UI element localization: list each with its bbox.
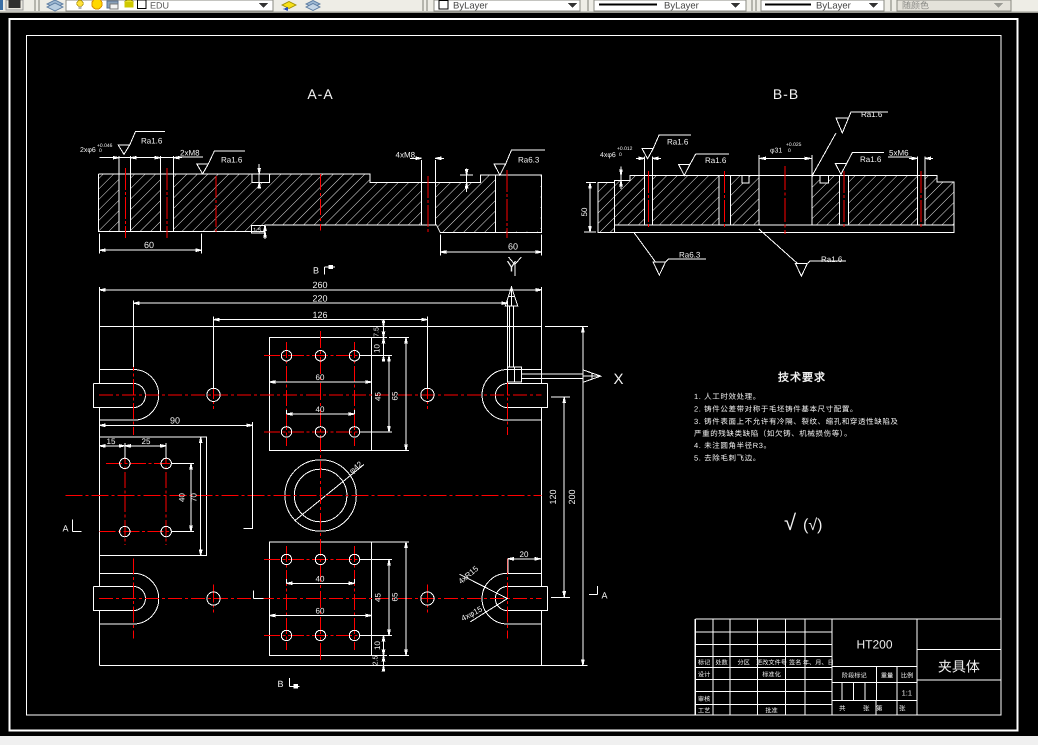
slot top-left outer bbox=[99, 370, 158, 421]
svg-text:0: 0 bbox=[99, 148, 102, 154]
svg-text:4. 未注圆角半径R3。: 4. 未注圆角半径R3。 bbox=[694, 441, 772, 450]
layer previous icon bbox=[306, 1, 320, 8]
dim 4xM8 arrows bbox=[410, 157, 444, 159]
hole void b1 bbox=[645, 174, 653, 224]
plan main outline bottom edge + dim ext bbox=[99, 665, 587, 667]
layer combo field bbox=[66, 0, 273, 11]
svg-text:设计: 设计 bbox=[698, 671, 710, 679]
toolbar separators bbox=[35, 0, 39, 11]
svg-text:2. 铸件公差带对称于毛坯铸件基本尺寸配置。: 2. 铸件公差带对称于毛坯铸件基本尺寸配置。 bbox=[694, 405, 858, 414]
hole void b5 bbox=[917, 174, 925, 224]
bottom bolt plate bbox=[269, 542, 371, 656]
separator3 bbox=[587, 0, 589, 11]
color combo bbox=[434, 0, 580, 11]
svg-text:Ra1.6: Ra1.6 bbox=[705, 156, 727, 165]
svg-text:65: 65 bbox=[391, 592, 400, 601]
slot top-right outer bbox=[482, 370, 542, 421]
right column dividers bbox=[917, 650, 1001, 680]
notch void n2 bbox=[820, 174, 829, 183]
dim 60 right line bbox=[440, 251, 541, 253]
svg-text:严重的残缺类缺陷（如欠铸、机械损伤等）。: 严重的残缺类缺陷（如欠铸、机械损伤等）。 bbox=[694, 429, 852, 438]
left flange hatched bbox=[598, 183, 614, 233]
surface Ra1.6 b2 bbox=[679, 165, 690, 176]
svg-text:ByLayer: ByLayer bbox=[664, 1, 699, 12]
svg-text:√: √ bbox=[784, 510, 797, 535]
svg-text:B: B bbox=[278, 679, 284, 689]
notch n1 outline bbox=[742, 175, 749, 183]
red centerline hole h2 bbox=[166, 168, 168, 238]
svg-text:A: A bbox=[63, 524, 69, 534]
dim 45 bottom plate bbox=[360, 560, 392, 636]
svg-text:HT200: HT200 bbox=[856, 638, 892, 652]
surface Ra1.6 no1 bbox=[118, 145, 130, 154]
svg-text:处数: 处数 bbox=[715, 659, 728, 667]
toolbar background bbox=[0, 0, 1038, 12]
red centerline slot bbox=[506, 170, 508, 238]
hole void h2 bbox=[161, 173, 174, 232]
lineweight combo bbox=[761, 0, 884, 11]
notch outline bbox=[252, 174, 269, 182]
hole void b4 bbox=[840, 174, 849, 224]
svg-text:260: 260 bbox=[312, 280, 327, 290]
svg-text:60: 60 bbox=[144, 240, 154, 250]
red centerline b5 bbox=[920, 171, 922, 229]
svg-text:2.5: 2.5 bbox=[373, 656, 380, 666]
toolbar left blue icon sliver bbox=[0, 0, 3, 10]
svg-text:Ra1.6: Ra1.6 bbox=[861, 110, 883, 119]
title block left grid horizontals bbox=[695, 632, 831, 705]
section B-B outline bbox=[614, 175, 954, 224]
red centerline b1 bbox=[647, 171, 649, 229]
svg-text:10: 10 bbox=[373, 641, 382, 650]
sun icon bbox=[92, 0, 102, 9]
separator5 bbox=[890, 0, 892, 11]
svg-text:4xφ6: 4xφ6 bbox=[600, 152, 616, 159]
svg-text:标记: 标记 bbox=[698, 659, 710, 667]
hole h2 walls bbox=[161, 174, 174, 232]
red centerline hole h1 bbox=[124, 168, 126, 238]
dim 90 ext bbox=[244, 422, 253, 529]
dim 120 right bbox=[563, 397, 565, 597]
slot bottom-left outer bbox=[99, 573, 158, 624]
dim 126 ext bbox=[214, 317, 428, 389]
red centerline vertical center bbox=[320, 331, 322, 663]
hole h1 dim extension bbox=[119, 156, 131, 174]
svg-text:A: A bbox=[602, 591, 608, 601]
svg-text:B: B bbox=[313, 266, 319, 276]
red centerline hole h3 bbox=[427, 176, 429, 232]
svg-text:60: 60 bbox=[316, 607, 325, 616]
svg-text:Ra6.3: Ra6.3 bbox=[518, 156, 540, 165]
red verticals lone holes bbox=[214, 381, 428, 613]
svg-text:标准化: 标准化 bbox=[762, 671, 781, 679]
svg-text:批准: 批准 bbox=[765, 707, 777, 715]
hole void h3 bbox=[422, 181, 436, 226]
svg-text:Ra1.6: Ra1.6 bbox=[141, 137, 163, 146]
header texts row bbox=[698, 659, 834, 715]
top bolt plate bbox=[269, 338, 371, 451]
slot bottom-right inner + ear bbox=[495, 587, 547, 611]
bottom plate holes row1 bbox=[281, 554, 291, 564]
svg-text:审核: 审核 bbox=[698, 695, 710, 703]
dim 220 bbox=[133, 302, 507, 304]
dim 90 bbox=[99, 424, 252, 426]
plan left edge segments bbox=[98, 326, 100, 665]
hole b4 walls bbox=[840, 175, 849, 224]
svg-text:更改文件号: 更改文件号 bbox=[756, 659, 787, 667]
bottom gray strip bbox=[0, 736, 1038, 745]
title block left grid verticals bbox=[713, 619, 832, 715]
svg-text:年、月、日: 年、月、日 bbox=[803, 659, 834, 667]
separators2 bbox=[423, 0, 427, 11]
dim 40 bottom plate bbox=[287, 579, 355, 585]
toolbar placeholder bbox=[0, 0, 1, 1]
dim 15 25 bbox=[99, 445, 166, 447]
surface Ra1.6 no2 bbox=[197, 164, 209, 174]
red centerline row bottom bbox=[99, 598, 542, 600]
red verticals left plate bbox=[125, 448, 166, 545]
svg-text:共: 共 bbox=[839, 705, 846, 713]
dim 65 top plate bbox=[372, 338, 410, 451]
svg-text:φ31: φ31 bbox=[770, 148, 782, 155]
svg-text:2xM8: 2xM8 bbox=[180, 149, 200, 158]
svg-text:重量: 重量 bbox=[881, 672, 893, 680]
svg-text:5. 去除毛刺飞边。: 5. 去除毛刺飞边。 bbox=[694, 454, 761, 463]
red centerline b2 bbox=[723, 171, 725, 229]
red verticals slots left bbox=[132, 355, 134, 639]
notch step dim bbox=[258, 164, 260, 189]
UCS Y axis shaft bbox=[509, 306, 513, 367]
dim 20 slot bbox=[508, 558, 541, 574]
svg-text:0: 0 bbox=[788, 148, 791, 154]
hole h2 dim extension bbox=[161, 156, 174, 174]
top plate holes row1 bbox=[281, 351, 291, 361]
linetype combo bbox=[594, 0, 746, 11]
slot void bbox=[495, 174, 540, 232]
dim 7.5 10 col top bbox=[372, 320, 388, 362]
datum Y mark bbox=[509, 257, 522, 276]
middle column dividers bbox=[832, 619, 917, 715]
top plate holes row2 bbox=[281, 427, 291, 437]
svg-text:B-B: B-B bbox=[773, 86, 799, 102]
red rows bottom plate bbox=[264, 560, 377, 636]
svg-text:ByLayer: ByLayer bbox=[453, 1, 488, 12]
dim 60 bottom plate bbox=[269, 614, 371, 616]
svg-text:25: 25 bbox=[142, 437, 151, 446]
dim 260 ext bbox=[99, 287, 541, 326]
svg-text:技术要求: 技术要求 bbox=[778, 371, 826, 384]
svg-text:阶段标记: 阶段标记 bbox=[842, 672, 867, 680]
svg-text:Y: Y bbox=[507, 259, 517, 276]
hole void b2 bbox=[719, 174, 731, 224]
slot top-right inner + ear bbox=[495, 384, 547, 408]
UCS X axis shaft bbox=[522, 374, 583, 378]
svg-text:工艺: 工艺 bbox=[698, 707, 710, 715]
hole void h1 bbox=[119, 173, 131, 232]
svg-text:5xM6: 5xM6 bbox=[889, 149, 909, 158]
svg-text:45: 45 bbox=[374, 392, 383, 401]
plan right edge segments bbox=[541, 326, 543, 665]
left plate holes bbox=[120, 458, 130, 468]
dim 4xPhi6 arrows bbox=[636, 157, 661, 159]
svg-text:Ra1.6: Ra1.6 bbox=[667, 137, 689, 146]
svg-text:第: 第 bbox=[876, 705, 883, 713]
surface Ra1.6 bottom mid leader bbox=[759, 229, 798, 264]
svg-text:分区: 分区 bbox=[738, 659, 750, 667]
dim 10 2.5 bottom bbox=[372, 636, 388, 672]
hole h3 walls bbox=[422, 182, 436, 225]
dim 200 right bbox=[582, 326, 584, 665]
printer icon bbox=[107, 1, 118, 8]
dim 40 left plate bbox=[172, 463, 194, 531]
notch n2 outline bbox=[820, 175, 829, 183]
dim 5xM6 arrows bbox=[909, 157, 933, 159]
svg-text:220: 220 bbox=[312, 294, 327, 304]
svg-text:比例: 比例 bbox=[901, 672, 913, 680]
dim 200 top ext bbox=[545, 325, 588, 327]
red verticals top plate bbox=[287, 342, 355, 446]
sheet texts bbox=[839, 705, 906, 713]
bottom plate band bbox=[614, 225, 954, 233]
section B-B hatched body bbox=[614, 175, 954, 224]
section jog mark bbox=[254, 591, 264, 599]
svg-text:60: 60 bbox=[508, 242, 518, 252]
red verticals bottom plate bbox=[287, 546, 355, 650]
small step dim left bbox=[614, 167, 627, 189]
red centerline b4 bbox=[843, 171, 845, 229]
bottom plate holes row2 bbox=[281, 630, 291, 640]
hole h1 walls bbox=[119, 174, 131, 232]
svg-text:EDU: EDU bbox=[150, 1, 169, 11]
title block outer bbox=[695, 619, 1001, 715]
svg-text:随颜色: 随颜色 bbox=[902, 1, 929, 11]
red centerline x216 bbox=[215, 176, 217, 233]
red centerline center bbox=[320, 174, 322, 231]
top notch void bbox=[252, 173, 269, 182]
svg-text:60: 60 bbox=[316, 373, 325, 382]
svg-text:签名: 签名 bbox=[789, 659, 801, 667]
phi42 leader bbox=[295, 465, 364, 521]
dim 120 ext bbox=[551, 397, 570, 597]
hole b2 walls bbox=[719, 175, 731, 224]
UCS origin box bbox=[508, 367, 522, 382]
surface Ra1.6 high right with leader bbox=[812, 133, 836, 176]
red rows left plate bbox=[99, 463, 182, 531]
svg-text:ByLayer: ByLayer bbox=[816, 1, 851, 12]
white color chip bbox=[138, 0, 147, 9]
section A-A outline bbox=[99, 174, 542, 233]
svg-text:0: 0 bbox=[619, 152, 622, 158]
slot top-left inner + ear bbox=[94, 384, 146, 408]
surface Ra6.3 bbox=[494, 164, 506, 175]
svg-text:1:1: 1:1 bbox=[902, 689, 912, 698]
section A-A hatched body bbox=[99, 174, 542, 233]
plan main outline top edge bbox=[99, 325, 541, 327]
dim 15 25 ext bbox=[125, 443, 166, 458]
svg-text:2xφ6: 2xφ6 bbox=[80, 147, 96, 154]
toolbar dark square icon bbox=[6, 0, 23, 10]
left bolt plate bbox=[99, 437, 206, 555]
hole b5 walls + ext bbox=[917, 157, 925, 225]
dim phi31 bbox=[758, 157, 812, 159]
dim 60 left line bbox=[100, 249, 202, 251]
svg-text:15: 15 bbox=[107, 437, 116, 446]
dim 2xPhi6 line bbox=[100, 157, 182, 159]
hole b1 walls + ext bbox=[645, 157, 653, 225]
phi31 walls + ext bbox=[759, 155, 812, 225]
svg-text:A-A: A-A bbox=[307, 86, 333, 102]
svg-text:40: 40 bbox=[178, 493, 187, 502]
svg-text:张: 张 bbox=[863, 705, 870, 713]
dim 60 left ext bbox=[100, 234, 202, 254]
dim 2xM8 arrows bbox=[155, 157, 179, 159]
svg-text:40: 40 bbox=[316, 574, 325, 583]
svg-text:Ra1.6: Ra1.6 bbox=[221, 155, 243, 164]
svg-text:50: 50 bbox=[580, 207, 589, 216]
center circle outer bbox=[285, 460, 356, 531]
slot bottom-left inner + ear bbox=[94, 587, 146, 611]
notch void n1 bbox=[742, 174, 749, 183]
red centerline middle bbox=[65, 495, 541, 497]
center hole void phi31 bbox=[759, 174, 812, 224]
dim 45 top plate bbox=[360, 356, 392, 432]
label 4xR15 leader bbox=[460, 574, 508, 622]
svg-text:7.5: 7.5 bbox=[374, 327, 381, 337]
svg-text:Ra1.6: Ra1.6 bbox=[821, 255, 843, 264]
svg-text:3. 铸件表面上不允许有冷隔、裂纹、缩孔和穿透性缺陷及: 3. 铸件表面上不允许有冷隔、裂纹、缩孔和穿透性缺陷及 bbox=[694, 417, 899, 426]
dim 260 bbox=[99, 289, 541, 291]
svg-text:120: 120 bbox=[548, 489, 558, 504]
dim 126 bbox=[214, 318, 428, 320]
hole h3 dim extension bbox=[422, 160, 436, 182]
svg-text:Ra6.3: Ra6.3 bbox=[679, 250, 701, 259]
middle header texts bbox=[842, 672, 913, 680]
svg-text:200: 200 bbox=[567, 489, 577, 504]
UCS X arrowhead bbox=[583, 370, 601, 382]
small step dim mid bbox=[460, 169, 473, 193]
dim 220 ext bbox=[133, 301, 507, 368]
svg-text:40: 40 bbox=[316, 405, 325, 414]
svg-text:Ra1.6: Ra1.6 bbox=[860, 155, 882, 164]
surface Ra1.6 b1 bbox=[642, 149, 653, 159]
svg-text:(√): (√) bbox=[803, 517, 822, 534]
surface Ra1.6 above b4 bbox=[835, 164, 846, 175]
make layer current icon bbox=[282, 2, 296, 9]
svg-text:1. 人工时效处理。: 1. 人工时效处理。 bbox=[694, 392, 761, 401]
bottom step dim bbox=[264, 225, 266, 239]
center circle inner bbox=[294, 469, 347, 522]
svg-text:126: 126 bbox=[312, 310, 327, 320]
svg-text:90: 90 bbox=[170, 416, 180, 426]
dim 60 right ext bbox=[440, 235, 541, 256]
svg-text:45: 45 bbox=[374, 593, 383, 602]
lone holes on rows bbox=[207, 388, 220, 401]
plotstyle combo disabled bbox=[897, 0, 1011, 11]
dim 50 bbox=[584, 183, 596, 232]
svg-text:10: 10 bbox=[373, 344, 382, 353]
red centerline row top bbox=[99, 394, 542, 396]
UCS Y arrowhead bbox=[505, 287, 517, 306]
separator4 bbox=[752, 0, 756, 11]
dim 60 top plate bbox=[269, 381, 371, 383]
slot bottom-right outer bbox=[482, 573, 542, 624]
svg-text:夹具体: 夹具体 bbox=[938, 659, 980, 675]
svg-text:20: 20 bbox=[520, 550, 529, 559]
red verticals slots right bbox=[506, 355, 508, 639]
svg-text:70: 70 bbox=[190, 493, 199, 502]
surface Ra6.3 bottom left leader bbox=[634, 233, 655, 262]
svg-text:张: 张 bbox=[899, 705, 906, 713]
slot left wall bbox=[494, 175, 496, 233]
svg-text:65: 65 bbox=[391, 391, 400, 400]
dim 65 bottom plate bbox=[372, 542, 410, 656]
bulb icon bbox=[77, 0, 83, 6]
combo arrow bbox=[259, 3, 268, 8]
layers icon bbox=[47, 0, 63, 8]
dim 70 left plate bbox=[200, 437, 202, 555]
dim 40 top plate bbox=[287, 410, 355, 415]
red centerline phi31 bbox=[784, 166, 786, 234]
color cylinder icon bbox=[125, 0, 134, 4]
red rows top plate bbox=[264, 356, 377, 432]
middle header dividers bbox=[842, 667, 897, 716]
svg-text:X: X bbox=[614, 371, 624, 388]
